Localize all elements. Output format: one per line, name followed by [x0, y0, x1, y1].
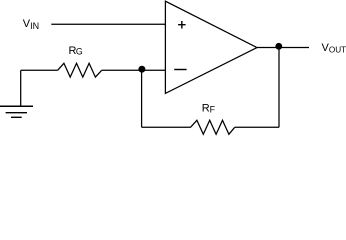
wire node A to op-amp inverting input	[142, 69, 166, 71]
wire RG to node A	[102, 69, 142, 71]
svg-text:F: F	[210, 104, 216, 114]
resistor RF	[191, 120, 235, 134]
node VIN label	[23, 18, 39, 31]
resistor RG value label	[69, 45, 83, 57]
op-amp U1	[165, 1, 257, 93]
ground	[0, 70, 33, 117]
wire output leg up to node VOUT	[278, 48, 280, 128]
node VOUT label	[322, 42, 346, 54]
op-amp plus input marker	[178, 21, 186, 29]
svg-text:IN: IN	[30, 21, 39, 31]
wire VIN to op-amp noninverting input	[51, 23, 165, 25]
wire node A down (feedback left leg)	[141, 70, 143, 127]
op-amp minus input marker	[174, 69, 186, 71]
wire feedback bottom to RF	[142, 126, 191, 128]
wire ground to resistor RG	[21, 69, 58, 71]
resistor RG	[58, 63, 102, 77]
node A junction dot	[138, 66, 145, 73]
wire RF to output leg	[235, 126, 279, 128]
svg-text:G: G	[76, 47, 83, 57]
resistor RF value label	[202, 102, 216, 114]
svg-text:R: R	[202, 102, 210, 114]
svg-text:OUT: OUT	[329, 45, 346, 54]
node VOUT junction dot	[275, 43, 282, 50]
wire op-amp output to VOUT	[257, 47, 309, 49]
